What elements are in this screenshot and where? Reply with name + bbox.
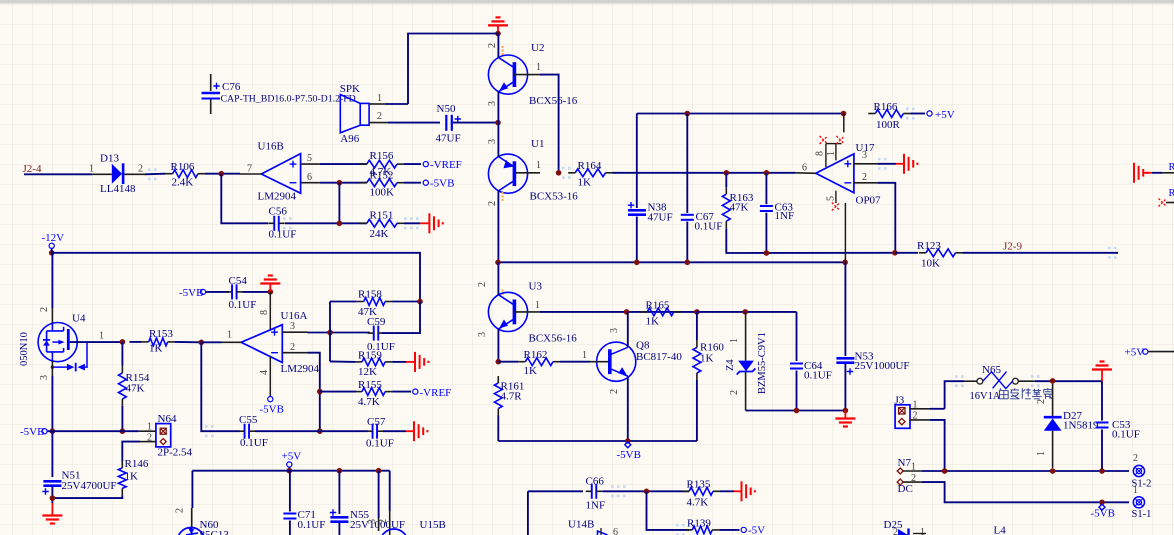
transistor Q8 BC817-40 bbox=[597, 342, 636, 381]
svg-text:R106: R106 bbox=[171, 161, 195, 173]
wire bbox=[877, 163, 896, 165]
wire bbox=[627, 312, 629, 347]
capacitor N51 25V4700UF bbox=[43, 480, 61, 483]
svg-text:0.1UF: 0.1UF bbox=[804, 370, 832, 382]
svg-text:2: 2 bbox=[487, 43, 498, 48]
svg-text:6: 6 bbox=[613, 527, 618, 535]
wire bbox=[540, 311, 697, 313]
svg-text:16V1A: 16V1A bbox=[970, 391, 1001, 402]
wire bbox=[627, 377, 629, 442]
ground bbox=[428, 213, 430, 233]
svg-text:6: 6 bbox=[307, 172, 312, 183]
grip marks bbox=[955, 375, 958, 378]
wire bbox=[844, 364, 846, 411]
ground bbox=[406, 430, 414, 432]
wire bbox=[221, 174, 268, 224]
node pin3 bbox=[327, 330, 333, 336]
svg-text:R146: R146 bbox=[125, 458, 149, 470]
svg-text:C55: C55 bbox=[239, 414, 258, 426]
svg-text:R135: R135 bbox=[687, 479, 711, 491]
wire bbox=[383, 430, 406, 432]
svg-text:C57: C57 bbox=[367, 416, 386, 428]
power port -5VB bbox=[423, 180, 428, 185]
power port -5VB circle bbox=[200, 289, 205, 294]
resistor R153 1K bbox=[149, 338, 168, 346]
node Q8-collector-top bbox=[624, 309, 630, 315]
svg-text:-5VB: -5VB bbox=[260, 404, 284, 416]
U4 gate zeners bbox=[67, 364, 74, 371]
power port +5V circle bbox=[287, 462, 292, 467]
capacitor C71 0.1UF bbox=[283, 513, 296, 515]
resistor R163 47K bbox=[722, 194, 730, 221]
svg-text:R155: R155 bbox=[358, 379, 382, 391]
resistor R159 12K bbox=[362, 358, 385, 366]
speaker A96 bbox=[360, 103, 369, 125]
wire bbox=[320, 391, 356, 393]
svg-text:1: 1 bbox=[536, 160, 541, 171]
resistor R151 24K bbox=[367, 219, 397, 227]
node U17-V+ bbox=[841, 111, 847, 117]
svg-text:47K: 47K bbox=[730, 202, 749, 214]
node C53-bot bbox=[1099, 468, 1105, 474]
op-amp U17 pins 8-1-5 bbox=[825, 144, 827, 167]
capacitor C54 0.1UF bbox=[231, 284, 233, 299]
svg-text:0.1UF: 0.1UF bbox=[1112, 429, 1140, 441]
capacitor C55 0.1UF bbox=[244, 424, 246, 439]
wire bbox=[1166, 202, 1174, 204]
node -5VB-right bbox=[1099, 500, 1105, 506]
diode Z4 BZM55-C9V1 bbox=[745, 312, 747, 361]
svg-text:3: 3 bbox=[367, 519, 378, 524]
svg-text:1N5819: 1N5819 bbox=[1063, 420, 1099, 432]
svg-text:BC817-40: BC817-40 bbox=[636, 351, 682, 363]
capacitor N50 47UF bbox=[445, 115, 447, 131]
svg-text:47UF: 47UF bbox=[648, 212, 673, 224]
wire bbox=[385, 103, 408, 105]
svg-text:+5V: +5V bbox=[282, 451, 302, 463]
power port -5VB diamond bbox=[625, 442, 631, 448]
wire bbox=[320, 182, 367, 184]
svg-text:1K: 1K bbox=[578, 177, 592, 189]
node J3pin2 bbox=[942, 468, 948, 474]
wire bbox=[1101, 381, 1103, 420]
wire bbox=[289, 521, 291, 535]
wire bbox=[392, 301, 420, 303]
resistor R160 1K bbox=[693, 347, 701, 373]
svg-text:-VREF: -VREF bbox=[430, 159, 462, 171]
pad S1-2 bbox=[1133, 465, 1144, 476]
svg-text:R165: R165 bbox=[646, 300, 670, 312]
wire bbox=[51, 253, 53, 308]
ground bbox=[414, 352, 416, 372]
resistor R156 4.7K bbox=[367, 160, 397, 168]
wire bbox=[191, 471, 193, 508]
svg-text:+5V: +5V bbox=[1125, 347, 1145, 359]
wire bbox=[725, 173, 727, 187]
wire bbox=[121, 342, 123, 366]
wire bbox=[637, 113, 844, 115]
ground bbox=[488, 24, 508, 26]
node -5VB-left bbox=[50, 428, 56, 434]
wire bbox=[719, 529, 739, 531]
wire bbox=[636, 114, 638, 209]
resistor R155 4.7K bbox=[362, 388, 385, 396]
svg-text:3: 3 bbox=[39, 375, 50, 380]
node U3-R162 bbox=[496, 359, 502, 365]
svg-text:R162: R162 bbox=[524, 349, 548, 361]
svg-text:2: 2 bbox=[487, 201, 498, 206]
node R160-top bbox=[694, 309, 700, 315]
svg-text:8: 8 bbox=[259, 310, 270, 315]
svg-text:CAP-TH_BD16.0-P7.50-D1.2-FD: CAP-TH_BD16.0-P7.50-D1.2-FD bbox=[221, 94, 356, 105]
ground bbox=[1133, 163, 1135, 183]
wire bbox=[388, 122, 440, 124]
wire bbox=[129, 341, 141, 343]
transistor U3 BCX56-16 bbox=[488, 292, 527, 331]
wire bbox=[320, 163, 367, 165]
node C63-top bbox=[764, 170, 770, 176]
resistor R166 100R bbox=[875, 110, 903, 118]
grip marks bbox=[878, 158, 881, 161]
wire bbox=[720, 490, 734, 492]
svg-text:J3: J3 bbox=[895, 395, 905, 407]
svg-text:-VREF: -VREF bbox=[420, 387, 452, 399]
svg-text:1: 1 bbox=[913, 400, 918, 411]
svg-text:-5VB: -5VB bbox=[20, 426, 44, 438]
node U1-base bbox=[556, 170, 562, 176]
node C63-bot bbox=[764, 250, 770, 256]
wire bbox=[308, 353, 320, 432]
svg-text:U15B: U15B bbox=[420, 519, 446, 531]
wire bbox=[497, 329, 499, 362]
ground bbox=[835, 417, 855, 419]
svg-text:S1-1: S1-1 bbox=[1132, 509, 1152, 520]
wire bbox=[121, 406, 123, 431]
svg-text:1K: 1K bbox=[524, 365, 538, 377]
resistor R158 47K bbox=[364, 298, 385, 306]
ground bbox=[413, 421, 415, 441]
node U15B-top bbox=[376, 468, 382, 474]
node R154-bot bbox=[120, 428, 126, 434]
node C56-R151 bbox=[337, 221, 343, 227]
svg-text:R164: R164 bbox=[578, 160, 602, 172]
svg-text:1K: 1K bbox=[149, 343, 163, 355]
diode D27 1N5819 bbox=[1052, 384, 1054, 418]
ground bbox=[51, 503, 53, 516]
svg-text:2: 2 bbox=[39, 307, 50, 312]
ground bbox=[741, 481, 743, 501]
capacitor C63 1NF bbox=[760, 205, 773, 207]
svg-text:N65: N65 bbox=[982, 364, 1001, 376]
capacitor N55 25V1000UF bbox=[330, 516, 348, 519]
svg-text:2: 2 bbox=[913, 411, 918, 422]
ground bbox=[420, 222, 429, 224]
wire bbox=[528, 490, 583, 492]
capacitor C56 0.1UF bbox=[273, 216, 275, 231]
ground bbox=[42, 514, 62, 516]
wire bbox=[24, 173, 92, 175]
svg-text:2: 2 bbox=[893, 527, 898, 535]
svg-text:1: 1 bbox=[1036, 451, 1047, 456]
wire bbox=[844, 262, 846, 356]
op-amp U17 supply pins bbox=[843, 114, 845, 133]
svg-text:R159: R159 bbox=[358, 350, 382, 362]
svg-text:2: 2 bbox=[1133, 453, 1138, 464]
wire bbox=[201, 341, 221, 343]
svg-text:0.1UF: 0.1UF bbox=[366, 438, 394, 450]
wire bbox=[498, 440, 697, 442]
wire bbox=[122, 442, 140, 461]
wire bbox=[338, 471, 340, 514]
node -5VB-Q8 bbox=[625, 438, 631, 444]
wire bbox=[796, 312, 798, 361]
svg-text:LL4148: LL4148 bbox=[100, 183, 136, 195]
svg-text:3: 3 bbox=[609, 328, 620, 333]
grip marks bbox=[676, 524, 679, 527]
node C67-bot bbox=[685, 260, 691, 266]
capacitor C57 0.1UF bbox=[372, 424, 374, 439]
wire bbox=[497, 262, 499, 295]
node U17-V- bbox=[842, 260, 848, 266]
wire bbox=[51, 249, 53, 253]
svg-text:1: 1 bbox=[729, 338, 740, 343]
wire bbox=[51, 487, 53, 503]
svg-text:100K: 100K bbox=[370, 187, 395, 199]
svg-text:J2-4: J2-4 bbox=[23, 163, 42, 175]
resistor R162 1K bbox=[525, 358, 553, 366]
wire bbox=[192, 470, 389, 472]
wire bbox=[697, 311, 797, 313]
wire bbox=[696, 312, 698, 341]
node C67-top bbox=[685, 111, 691, 117]
svg-text:1: 1 bbox=[826, 151, 837, 156]
capacitor C59 0.1UF bbox=[373, 326, 375, 341]
wire bbox=[602, 490, 689, 492]
wire bbox=[527, 491, 529, 535]
resistor R154 47K bbox=[119, 373, 127, 399]
svg-text:2: 2 bbox=[290, 342, 295, 353]
wire bbox=[392, 361, 406, 363]
wire bbox=[145, 173, 166, 176]
power port -VREF circle bbox=[413, 389, 418, 394]
wire bbox=[1035, 380, 1102, 382]
diode D13 LL4148 bbox=[92, 173, 112, 175]
svg-text:BZM55-C9V1: BZM55-C9V1 bbox=[757, 332, 768, 394]
wire bbox=[895, 252, 918, 254]
svg-text:R151: R151 bbox=[370, 210, 394, 222]
node -12V bbox=[49, 250, 55, 256]
transistor U1 BCX53-16 bbox=[488, 154, 527, 193]
node U16A-out bbox=[199, 340, 205, 346]
svg-text:0.1UF: 0.1UF bbox=[240, 437, 268, 449]
wire bbox=[696, 380, 698, 441]
node D27-top bbox=[1050, 378, 1056, 384]
wire bbox=[498, 361, 518, 363]
transistor N60 85C13 bbox=[191, 508, 193, 528]
op-amp U16A pin8 bbox=[269, 292, 271, 330]
svg-text:25V1000UF: 25V1000UF bbox=[855, 360, 910, 372]
op-amp U16A pin4 bbox=[269, 357, 271, 396]
svg-text:2: 2 bbox=[377, 111, 382, 122]
transistor U15B bbox=[378, 471, 380, 518]
svg-text:-5VB: -5VB bbox=[179, 287, 203, 299]
svg-text:12K: 12K bbox=[358, 366, 377, 378]
svg-text:5: 5 bbox=[826, 196, 837, 201]
wire bbox=[686, 114, 688, 214]
node R158-C59 bbox=[417, 299, 423, 305]
svg-text:3: 3 bbox=[487, 101, 498, 106]
svg-text:R158: R158 bbox=[358, 289, 382, 301]
svg-text:3: 3 bbox=[477, 332, 488, 337]
svg-text:-5VB: -5VB bbox=[1091, 508, 1115, 520]
svg-text:8: 8 bbox=[815, 151, 826, 156]
node C66-R139 bbox=[644, 489, 650, 495]
svg-text:050N10: 050N10 bbox=[19, 332, 30, 366]
svg-text:0.1UF: 0.1UF bbox=[229, 299, 257, 311]
resistor R164 1K bbox=[575, 169, 605, 177]
node N53-bot bbox=[843, 408, 849, 414]
wire bbox=[498, 261, 845, 263]
wire bbox=[765, 173, 767, 204]
wire bbox=[497, 416, 499, 442]
wire bbox=[175, 341, 202, 343]
svg-text:+5V: +5V bbox=[935, 109, 955, 121]
svg-text:1: 1 bbox=[1133, 485, 1138, 496]
node R163-top bbox=[724, 170, 730, 176]
svg-text:1K: 1K bbox=[700, 353, 714, 365]
node pin6 bbox=[337, 180, 343, 186]
wire bbox=[1101, 429, 1103, 471]
wire bbox=[51, 431, 53, 477]
svg-text:R152: R152 bbox=[370, 170, 394, 182]
svg-text:U16B: U16B bbox=[258, 141, 284, 153]
node D27-bot bbox=[1050, 468, 1056, 474]
wire bbox=[636, 217, 638, 263]
capacitor C76 bbox=[210, 74, 212, 91]
svg-text:U3: U3 bbox=[529, 281, 543, 293]
wire bbox=[746, 410, 846, 412]
pad S1-1 bbox=[1133, 497, 1144, 508]
wire bbox=[201, 342, 240, 431]
svg-text:A96: A96 bbox=[340, 133, 359, 145]
capacitor C53 0.1UF bbox=[1096, 422, 1109, 424]
node U4-gate bbox=[120, 339, 126, 345]
svg-text:85C13: 85C13 bbox=[200, 529, 230, 535]
wire bbox=[404, 163, 421, 165]
grip marks bbox=[205, 425, 208, 428]
ground bbox=[903, 154, 905, 174]
wire bbox=[1162, 172, 1174, 174]
wire bbox=[330, 301, 357, 303]
node C64-bot bbox=[794, 408, 800, 414]
wire bbox=[945, 381, 965, 409]
grip marks bbox=[906, 108, 909, 111]
node C54-gnd bbox=[268, 289, 274, 295]
wire bbox=[205, 173, 240, 175]
grip marks bbox=[1108, 247, 1111, 250]
wire bbox=[453, 122, 498, 124]
svg-text:4.7R: 4.7R bbox=[501, 391, 523, 403]
wire bbox=[922, 470, 1129, 472]
wire bbox=[726, 228, 895, 253]
svg-text:1K: 1K bbox=[125, 471, 139, 483]
svg-text:2: 2 bbox=[138, 164, 143, 175]
svg-text:6: 6 bbox=[802, 163, 807, 174]
ground bbox=[260, 282, 280, 284]
power port -VREF bbox=[423, 162, 428, 167]
svg-text:L4: L4 bbox=[994, 525, 1007, 535]
wire bbox=[540, 75, 559, 173]
wire bbox=[255, 430, 368, 432]
wire bbox=[1152, 172, 1162, 174]
grip marks bbox=[148, 168, 151, 171]
transistor U4 050N10 bbox=[38, 323, 77, 362]
svg-text:2: 2 bbox=[609, 389, 620, 394]
wire bbox=[243, 291, 271, 293]
svg-text:1: 1 bbox=[147, 422, 152, 433]
svg-text:2: 2 bbox=[175, 508, 186, 513]
svg-text:C66: C66 bbox=[586, 476, 605, 488]
svg-text:10K: 10K bbox=[921, 258, 940, 270]
wire bbox=[796, 371, 798, 411]
svg-text:U14B: U14B bbox=[568, 519, 594, 531]
ground bbox=[734, 490, 742, 492]
svg-text:SPK: SPK bbox=[340, 83, 360, 95]
wire bbox=[930, 420, 945, 471]
node U2-U1 bbox=[495, 120, 501, 126]
wire bbox=[48, 430, 139, 432]
svg-text:2: 2 bbox=[1036, 399, 1047, 404]
resistor R106 2.4K bbox=[173, 170, 198, 178]
wire bbox=[877, 183, 895, 253]
node top-gnd bbox=[495, 31, 501, 37]
ground bbox=[406, 361, 415, 363]
wire bbox=[765, 213, 767, 253]
svg-text:7: 7 bbox=[247, 164, 252, 175]
svg-text:3: 3 bbox=[487, 139, 498, 144]
wire bbox=[285, 222, 367, 224]
wire bbox=[497, 123, 499, 157]
svg-text:LM2904: LM2904 bbox=[258, 191, 297, 203]
power port -5V circle bbox=[741, 527, 746, 532]
svg-text:R: R bbox=[1169, 188, 1174, 199]
wire bbox=[930, 408, 945, 410]
op-amp U16A LM2904 bbox=[241, 325, 282, 363]
wire bbox=[52, 495, 122, 498]
wire bbox=[70, 341, 123, 343]
wire bbox=[910, 113, 925, 115]
wire bbox=[497, 92, 499, 123]
power port +5V circle bbox=[1143, 349, 1148, 354]
wire bbox=[404, 182, 421, 184]
svg-text:D13: D13 bbox=[100, 153, 119, 165]
wire bbox=[560, 361, 590, 363]
svg-text:OP07: OP07 bbox=[856, 195, 882, 207]
svg-text:2P-2.54: 2P-2.54 bbox=[158, 447, 193, 459]
resistor R146 1K bbox=[118, 468, 126, 489]
wire bbox=[308, 332, 370, 334]
svg-text:25V4700UF: 25V4700UF bbox=[62, 480, 117, 492]
svg-text:BCX56-16: BCX56-16 bbox=[529, 95, 578, 107]
svg-text:1: 1 bbox=[99, 331, 104, 342]
svg-text:0.1UF: 0.1UF bbox=[298, 519, 326, 531]
power port -5VB circle bbox=[268, 397, 273, 402]
svg-text:2.4K: 2.4K bbox=[172, 177, 194, 189]
resistor R152 100K bbox=[367, 179, 397, 187]
svg-text:R153: R153 bbox=[149, 328, 173, 340]
wire bbox=[647, 491, 690, 530]
svg-text:-5VB: -5VB bbox=[430, 178, 454, 190]
